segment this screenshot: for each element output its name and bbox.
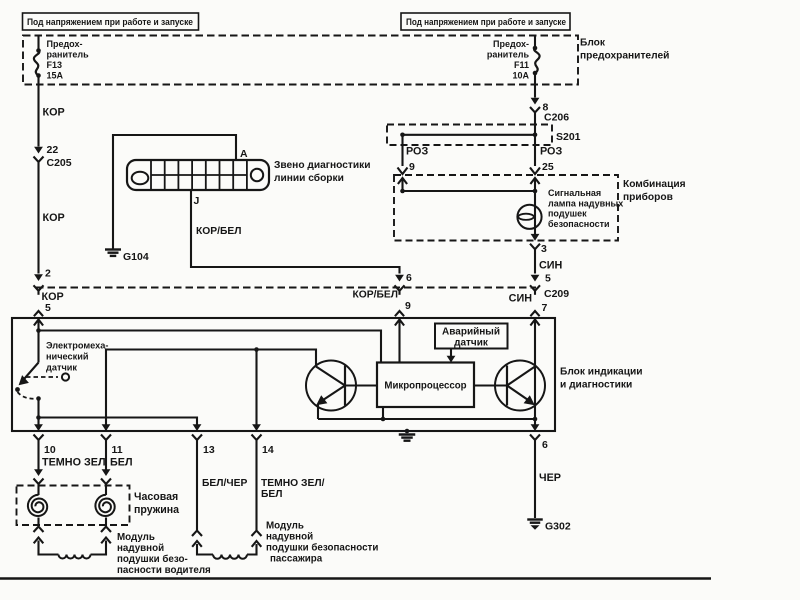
svg-text:надувной: надувной bbox=[266, 532, 313, 543]
svg-text:Под напряжением при работе и з: Под напряжением при работе и запуске bbox=[27, 16, 193, 27]
svg-text:13: 13 bbox=[203, 444, 215, 456]
block internal ground bbox=[405, 429, 410, 434]
note: power feed label right bbox=[401, 13, 570, 30]
wire pin7 collector rail down to pin 6 bbox=[534, 320, 536, 425]
electromechanical sensor switch bbox=[25, 363, 39, 379]
svg-text:Электромеха-: Электромеха- bbox=[46, 341, 108, 351]
wire: DLC pin A up and over to ground riser bbox=[113, 135, 236, 249]
sensor actuating link (dashed) and contact circle bbox=[26, 376, 58, 378]
DLC left oval hole bbox=[132, 172, 149, 185]
svg-text:5: 5 bbox=[545, 273, 551, 285]
entry pin 9 into cluster bbox=[398, 168, 408, 175]
transistor Q2 (right driver) bbox=[495, 361, 545, 411]
svg-text:Комбинация: Комбинация bbox=[623, 178, 686, 190]
svg-text:6: 6 bbox=[542, 439, 548, 451]
pin 6 exit bbox=[530, 435, 540, 441]
svg-text:A: A bbox=[240, 148, 248, 160]
svg-text:25: 25 bbox=[542, 161, 554, 173]
fuse block (dashed box) bbox=[23, 36, 578, 85]
C209 female at pin 2/5 bbox=[34, 285, 44, 291]
svg-text:пассажира: пассажира bbox=[270, 554, 323, 565]
svg-text:2: 2 bbox=[45, 268, 51, 280]
svg-text:подушки безо-: подушки безо- bbox=[117, 554, 188, 565]
svg-text:КОР: КОР bbox=[43, 212, 65, 224]
passenger module connectors bbox=[192, 531, 202, 537]
transistor Q1 (left driver) bbox=[306, 361, 356, 411]
wire through S201 with branch bbox=[534, 125, 536, 146]
note: power feed label left bbox=[23, 13, 199, 30]
svg-text:5: 5 bbox=[45, 302, 51, 314]
svg-text:22: 22 bbox=[47, 144, 59, 156]
svg-text:10: 10 bbox=[44, 444, 56, 456]
wire SIN pin 3 to C209 pin 5 bbox=[534, 253, 536, 274]
svg-text:Модуль: Модуль bbox=[117, 532, 155, 543]
svg-text:Блок: Блок bbox=[580, 38, 606, 49]
entry arrows pin 9 into block bbox=[395, 311, 404, 316]
svg-text:СИН: СИН bbox=[509, 293, 533, 305]
svg-text:линии сборки: линии сборки bbox=[274, 172, 344, 184]
passenger airbag module squib bbox=[197, 544, 213, 555]
clock spring spiral right bbox=[105, 488, 107, 495]
svg-text:и диагностики: и диагностики bbox=[560, 380, 632, 391]
svg-text:БЕЛ: БЕЛ bbox=[261, 489, 283, 500]
svg-text:ЧЕР: ЧЕР bbox=[539, 472, 561, 484]
svg-text:9: 9 bbox=[409, 161, 415, 173]
wire pin 11 / 14 bus to left transistor collector bbox=[106, 350, 316, 425]
crash sensor box bbox=[435, 324, 508, 349]
svg-text:лампа надувных: лампа надувных bbox=[548, 198, 623, 208]
C209 female at pin 6/9 bbox=[395, 285, 405, 291]
svg-text:J: J bbox=[194, 195, 200, 207]
svg-text:надувной: надувной bbox=[117, 543, 164, 554]
svg-text:C205: C205 bbox=[47, 157, 72, 169]
pin 6 arrow at C209 bbox=[395, 275, 404, 282]
wire CHER pin 6 to ground bbox=[534, 444, 536, 518]
svg-text:БЕЛ: БЕЛ bbox=[110, 457, 133, 469]
svg-text:7: 7 bbox=[542, 302, 548, 314]
svg-text:Часовая: Часовая bbox=[134, 491, 178, 503]
svg-text:ТЕМНО ЗЕЛ: ТЕМНО ЗЕЛ bbox=[42, 457, 106, 469]
svg-text:Под напряжением при работе и з: Под напряжением при работе и запуске bbox=[406, 16, 566, 27]
driver module connectors bbox=[34, 527, 44, 533]
driver airbag module squib bbox=[39, 541, 59, 555]
svg-text:Блок индикации: Блок индикации bbox=[560, 367, 643, 378]
splice S201 (dashed box) bbox=[387, 125, 552, 146]
page rule line bbox=[0, 577, 711, 579]
wire TEMNO ZEL pin 10 bbox=[37, 444, 39, 470]
wire TEMNO ZEL/BEL pin 14 bbox=[255, 444, 257, 530]
svg-text:приборов: приборов bbox=[623, 191, 673, 203]
entry arrows pin 7 into block bbox=[530, 311, 539, 316]
svg-text:Микропроцессор: Микропроцессор bbox=[384, 381, 466, 392]
connector C206 pin 8 bbox=[534, 85, 536, 98]
svg-text:предохранителей: предохранителей bbox=[580, 51, 669, 62]
pin 11 exit bbox=[101, 435, 111, 441]
svg-text:датчик: датчик bbox=[46, 363, 77, 373]
svg-text:нический: нический bbox=[46, 352, 89, 362]
svg-text:пасности водителя: пасности водителя bbox=[117, 565, 211, 576]
microprocessor box bbox=[377, 363, 474, 408]
wire sensor to pin 13 bbox=[36, 415, 41, 420]
svg-text:Сигнальная: Сигнальная bbox=[548, 188, 601, 198]
svg-text:C206: C206 bbox=[544, 112, 569, 124]
wire KOP/BEL from DLC pin J to C209 pin 6 bbox=[191, 190, 400, 274]
entry arrows pin 5 into block bbox=[34, 311, 43, 316]
fuse F11 10A bbox=[534, 36, 536, 48]
ground G302 bbox=[527, 518, 543, 520]
pin 13 exit bbox=[192, 435, 202, 441]
ground G104 bbox=[105, 248, 121, 250]
svg-text:Аварийный: Аварийный bbox=[442, 327, 500, 338]
entry pin 25 into cluster bbox=[530, 168, 540, 175]
svg-text:РОЗ: РОЗ bbox=[406, 146, 428, 158]
instrument cluster (dashed box) bbox=[394, 175, 618, 241]
connector C205 pin 22 bbox=[34, 147, 43, 154]
pin 14 exit bbox=[252, 435, 262, 441]
wire BEL pin 11 bbox=[105, 444, 107, 470]
svg-text:пружина: пружина bbox=[134, 504, 179, 516]
svg-text:F11: F11 bbox=[514, 60, 529, 70]
svg-text:Модуль: Модуль bbox=[266, 521, 304, 532]
microprocessor ground drop bbox=[382, 407, 384, 419]
wire BEL/CHER pin 13 bbox=[196, 444, 198, 530]
emitter bus wire to ground tie bbox=[318, 418, 535, 420]
svg-text:10А: 10А bbox=[512, 71, 529, 81]
svg-text:9: 9 bbox=[405, 300, 411, 312]
DLC right hole bbox=[251, 169, 263, 181]
svg-text:подушек: подушек bbox=[548, 209, 587, 219]
wire pin 14 drop bbox=[255, 350, 257, 425]
cluster internal bus wire bbox=[400, 189, 405, 194]
wire pin 9 to microprocessor bbox=[398, 320, 400, 363]
svg-text:14: 14 bbox=[262, 444, 274, 456]
svg-text:Звено диагностики: Звено диагностики bbox=[274, 160, 371, 171]
svg-text:КОР: КОР bbox=[43, 107, 65, 119]
clock spring connectors bbox=[34, 469, 43, 476]
DLC grid cells bbox=[150, 160, 152, 190]
svg-text:F13: F13 bbox=[47, 60, 63, 70]
block: indication and diagnostics module bbox=[12, 318, 555, 431]
svg-text:КОР/БЕЛ: КОР/БЕЛ bbox=[352, 290, 398, 301]
internal wire pin5 bus to microprocessor bbox=[39, 331, 382, 363]
pin 2 arrow at C209 bbox=[34, 274, 43, 281]
svg-text:Предох-: Предох- bbox=[493, 39, 529, 49]
svg-text:G302: G302 bbox=[545, 521, 571, 533]
airbag warning lamp bbox=[534, 191, 536, 234]
connector C209 dashed line bbox=[36, 287, 536, 289]
clock spring spiral left bbox=[37, 488, 39, 495]
svg-text:S201: S201 bbox=[556, 131, 581, 143]
svg-text:3: 3 bbox=[541, 243, 547, 255]
pin 10 exit bbox=[34, 435, 44, 441]
svg-text:ранитель: ранитель bbox=[47, 50, 90, 60]
svg-text:ТЕМНО ЗЕЛ/: ТЕМНО ЗЕЛ/ bbox=[261, 478, 325, 489]
wire pin5 junction to sensor bbox=[37, 320, 39, 363]
svg-text:G104: G104 bbox=[123, 251, 149, 263]
svg-text:11: 11 bbox=[112, 444, 123, 456]
svg-text:безопасности: безопасности bbox=[548, 219, 610, 229]
svg-text:15А: 15А bbox=[47, 71, 64, 81]
svg-text:датчик: датчик bbox=[454, 338, 489, 349]
svg-text:Предох-: Предох- bbox=[47, 39, 83, 49]
svg-text:6: 6 bbox=[406, 272, 412, 284]
wire POZ right to pin 25 bbox=[534, 145, 536, 166]
wire KOP from F13 to C205 bbox=[37, 85, 39, 147]
DLC: assembly-line diagnostic link connector bbox=[127, 160, 269, 190]
cluster exit pin 3 bbox=[531, 234, 540, 241]
svg-text:БЕЛ/ЧЕР: БЕЛ/ЧЕР bbox=[202, 478, 247, 489]
fuse F13 15A bbox=[37, 36, 39, 51]
svg-text:подушки безопасности: подушки безопасности bbox=[266, 543, 378, 554]
svg-text:РОЗ: РОЗ bbox=[540, 146, 562, 158]
svg-text:ранитель: ранитель bbox=[487, 50, 530, 60]
arrow crash sensor to microprocessor bbox=[450, 349, 452, 361]
wire POZ left branch to pin 9 bbox=[401, 135, 403, 166]
svg-text:C209: C209 bbox=[544, 288, 569, 300]
C209 female at pin 5/7 right end bbox=[530, 285, 540, 291]
svg-text:КОР/БЕЛ: КОР/БЕЛ bbox=[196, 226, 242, 237]
wire sensor down to pin 10 bbox=[37, 418, 39, 425]
clock spring (dashed box) bbox=[17, 486, 130, 526]
svg-text:СИН: СИН bbox=[539, 260, 563, 272]
wire KOP from C205 to C209 bbox=[37, 166, 39, 274]
